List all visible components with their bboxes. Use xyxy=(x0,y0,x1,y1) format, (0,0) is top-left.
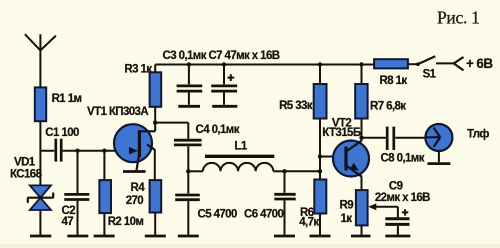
svg-text:C4 0,1мк: C4 0,1мк xyxy=(196,124,240,136)
node C8 junction xyxy=(359,136,363,140)
transistor VT1 КП303А (JFET) xyxy=(87,106,155,170)
svg-text:S1: S1 xyxy=(423,68,437,80)
ground C3 xyxy=(178,105,200,108)
wire drain node xyxy=(154,107,156,132)
capacitor C4 xyxy=(174,123,240,172)
svg-text:R2 10м: R2 10м xyxy=(108,216,144,228)
node L1 left xyxy=(186,169,190,173)
svg-text:R1 1м: R1 1м xyxy=(52,93,82,105)
svg-text:22мк x 16В: 22мк x 16В xyxy=(375,192,430,204)
svg-text:КТ315Б: КТ315Б xyxy=(322,127,361,139)
node base junction xyxy=(318,154,322,158)
svg-text:VT1 КП303А: VT1 КП303А xyxy=(87,106,148,118)
resistor R1 xyxy=(35,87,82,121)
node C6 junction xyxy=(282,169,286,173)
ground R4 xyxy=(145,235,166,238)
ground C5 xyxy=(178,235,199,238)
svg-text:R7 6,8к: R7 6,8к xyxy=(370,101,406,113)
ground C7 xyxy=(212,105,237,108)
switch S1 xyxy=(416,56,454,80)
ground VD1 xyxy=(30,235,51,238)
resistor R5 xyxy=(279,65,326,119)
ground R9 xyxy=(351,235,371,238)
svg-text:VD1: VD1 xyxy=(14,156,36,168)
svg-text:L1: L1 xyxy=(234,141,247,153)
svg-text:C6 4700: C6 4700 xyxy=(244,209,283,221)
resistor R7 xyxy=(355,65,406,119)
svg-text:C8 0,1мк: C8 0,1мк xyxy=(381,153,425,165)
connector +6V xyxy=(454,56,494,71)
capacitor C3 xyxy=(177,65,203,105)
resistor R4 xyxy=(126,180,162,235)
wire R1 to C1 node xyxy=(40,121,54,151)
ground C6 xyxy=(274,235,295,238)
wire VT1 source to R4 xyxy=(154,150,156,181)
wire R8 to switch xyxy=(408,63,418,65)
svg-text:C5 4700: C5 4700 xyxy=(198,209,237,221)
transistor VT2 КТ315Б (NPN) xyxy=(322,117,369,177)
svg-text:Рис. 1: Рис. 1 xyxy=(437,8,480,28)
svg-text:1к: 1к xyxy=(341,213,353,225)
svg-text:R8 1к: R8 1к xyxy=(380,75,408,87)
node R5 rail xyxy=(318,62,322,66)
capacitor C1 xyxy=(45,127,79,162)
svg-text:C3 0,1мк C7 47мк x 16В: C3 0,1мк C7 47мк x 16В xyxy=(163,50,280,62)
resistor R6 xyxy=(299,180,326,235)
wire C1 to VT1 gate xyxy=(63,150,137,152)
svg-text:R9: R9 xyxy=(340,199,354,211)
capacitor C2 xyxy=(62,151,90,235)
svg-text:47: 47 xyxy=(62,216,74,228)
node drain junction xyxy=(153,120,157,124)
zener VD1 КС168 xyxy=(10,151,54,235)
svg-text:R5 33к: R5 33к xyxy=(279,100,313,112)
node C2 junction xyxy=(75,149,79,153)
antenna W1 xyxy=(25,34,56,87)
node R7 rail xyxy=(359,62,363,66)
svg-text:270: 270 xyxy=(126,195,144,207)
resistor R8 xyxy=(374,59,408,87)
wire drain to C4 xyxy=(155,122,188,124)
capacitor C6 xyxy=(244,171,296,235)
headphone Тлф xyxy=(425,124,489,162)
svg-text:4,7к: 4,7к xyxy=(299,217,319,229)
ground R6 xyxy=(310,235,331,238)
wire L1 node to base column xyxy=(285,170,321,172)
node C7 rail xyxy=(222,62,226,66)
svg-text:+ 6В: + 6В xyxy=(466,56,493,71)
inductor L1 xyxy=(188,141,284,172)
ground C2 xyxy=(67,235,88,238)
resistor R2 xyxy=(99,151,143,235)
svg-text:Тлф: Тлф xyxy=(467,129,489,141)
node R2 junction xyxy=(102,149,106,153)
capacitor C7 (+) xyxy=(211,65,237,105)
ground C9 xyxy=(385,235,410,238)
ground R2 xyxy=(94,235,115,238)
ground Тлф xyxy=(428,162,451,165)
svg-text:R4: R4 xyxy=(131,182,146,194)
wire base xyxy=(320,156,338,158)
resistor R3 xyxy=(124,63,161,107)
wire R5 bottom to R6 (base column) xyxy=(319,119,321,180)
wire R7 bottom to collector xyxy=(361,119,363,142)
wire +6V top rail xyxy=(155,64,374,66)
svg-text:КС168: КС168 xyxy=(10,168,43,180)
capacitor C5 xyxy=(175,171,237,235)
capacitor C8 xyxy=(362,127,426,165)
capacitor C9 with select arrow xyxy=(368,181,430,235)
node C3 rail xyxy=(187,62,191,66)
svg-text:C1 100: C1 100 xyxy=(45,127,79,139)
wire emitter to R9 xyxy=(361,177,363,190)
ground VT1 case xyxy=(123,170,146,173)
node L1 wire junction xyxy=(318,169,322,173)
svg-text:C9: C9 xyxy=(389,181,403,193)
svg-text:R3 1к: R3 1к xyxy=(124,63,152,75)
resistor R9 xyxy=(340,190,368,235)
